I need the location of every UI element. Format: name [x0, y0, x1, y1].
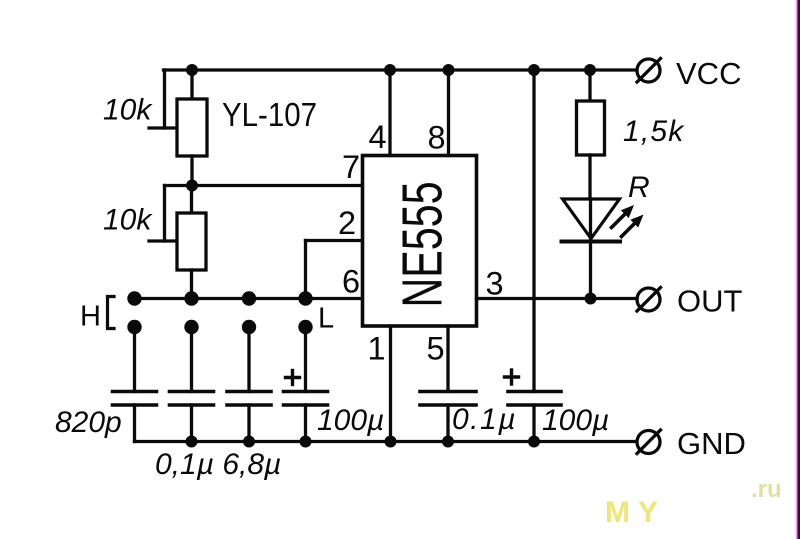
capacitor C6 100u electrolytic [505, 370, 562, 405]
wire pin 5 [446, 326, 449, 392]
capacitor C3 6,8u [227, 327, 271, 442]
svg-text:OUT: OUT [677, 284, 743, 319]
op-amp U1 NE555 body [363, 156, 477, 327]
page edge purple band [796, 0, 797, 539]
node L contact 1 [127, 320, 141, 334]
node dot rail/bypass [528, 64, 540, 76]
svg-text:100µ: 100µ [542, 404, 609, 437]
svg-text:1,5k: 1,5k [623, 115, 685, 148]
svg-text:NE555: NE555 [391, 182, 454, 308]
node dot gnd/C5 [442, 436, 454, 448]
node L contact 3 [242, 320, 256, 334]
svg-text:5: 5 [427, 331, 445, 367]
terminal GND [637, 430, 661, 454]
svg-text:4: 4 [369, 119, 387, 155]
wire GND rail [135, 440, 637, 443]
svg-text:.ru: .ru [751, 476, 782, 503]
svg-text:L: L [318, 303, 334, 335]
svg-text:0,1µ 6,8µ: 0,1µ 6,8µ [155, 448, 281, 481]
node L contact 4 [298, 320, 312, 334]
node H contact 3 [242, 291, 256, 305]
wire pin 2 [306, 241, 363, 299]
node dot rail/pin4 [384, 64, 396, 76]
wire pin 4 [388, 70, 391, 156]
wire pin 6 / H bus [131, 297, 363, 300]
capacitor C2 0,1u [170, 327, 214, 442]
node dot pin7/R1/R2 [186, 180, 198, 192]
capacitor C4 100u electrolytic [284, 327, 328, 442]
LED R [562, 199, 621, 299]
svg-text:3: 3 [486, 266, 504, 302]
node dot out/LED [585, 293, 597, 305]
svg-text:8: 8 [428, 120, 446, 156]
node dot gnd/pin1 [385, 436, 397, 448]
svg-text:6: 6 [342, 264, 360, 300]
svg-text:100µ: 100µ [317, 404, 384, 437]
svg-text:H: H [80, 301, 101, 333]
LED arrow 1 [612, 205, 635, 228]
svg-text:2: 2 [338, 205, 356, 241]
svg-text:GND: GND [677, 426, 746, 461]
svg-text:YL-107: YL-107 [222, 96, 317, 133]
svg-text:10k: 10k [103, 204, 153, 237]
node dot gnd/C6 [528, 436, 540, 448]
node dot rail/R1 [186, 64, 198, 76]
wire pin 3 / OUT line [477, 297, 638, 300]
node dot gnd/C2 [186, 436, 198, 448]
node dot gnd/C3 [243, 436, 255, 448]
wire pin 7 line [165, 184, 363, 187]
svg-text:820p: 820p [55, 406, 122, 439]
svg-text:MY: MY [605, 496, 666, 529]
svg-text:0.1µ: 0.1µ [452, 403, 517, 436]
node H contact 1 [127, 291, 141, 305]
capacitor C5 0.1u [420, 392, 476, 442]
terminal OUT [637, 288, 661, 312]
resistor R1 10k (trimmer) [149, 70, 207, 186]
wire VCC top rail [164, 68, 637, 71]
wire pin 8 [447, 70, 450, 156]
node dot rail/R3 [584, 64, 596, 76]
resistor R3 1,5k [577, 70, 605, 199]
node H contact 2 [184, 291, 198, 305]
node dot rail/pin8 [443, 64, 455, 76]
capacitor C1 820p [113, 327, 157, 442]
svg-text:10k: 10k [103, 94, 153, 127]
terminal VCC [637, 59, 661, 83]
node dot gnd/C4 [300, 436, 312, 448]
resistor R2 10k (trimmer) [149, 186, 206, 299]
svg-text:1: 1 [368, 331, 386, 367]
svg-text:VCC: VCC [676, 56, 741, 91]
wire VCC bypass drop [532, 70, 535, 442]
wire pin 1 to gnd [389, 326, 392, 442]
page edge pink band [795, 0, 797, 539]
svg-text:R: R [628, 171, 650, 204]
node H contact 4 [298, 291, 312, 305]
node L contact 2 [184, 320, 198, 334]
LED arrow 2 [622, 215, 644, 237]
svg-text:7: 7 [342, 149, 360, 185]
bracket for H row [108, 297, 115, 329]
